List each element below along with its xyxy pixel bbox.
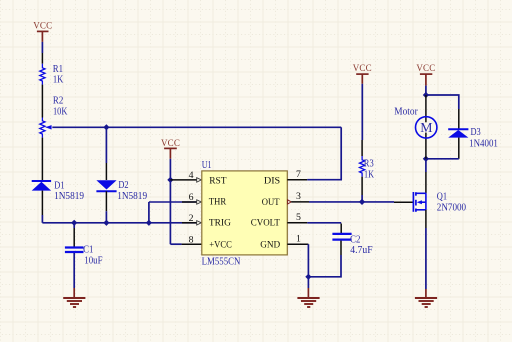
wire C2 bottom to GND net	[308, 255, 341, 277]
svg-text:C1: C1	[83, 244, 93, 255]
node junction motor top	[423, 92, 429, 98]
node junction D2 bottom	[103, 220, 109, 226]
wire DIS horizontal	[307, 179, 342, 181]
power port VCC (top-left)	[33, 21, 52, 42]
svg-text:RST: RST	[209, 175, 226, 186]
wire OUT to gate	[309, 201, 394, 203]
pin R1.2 / pin R2.1	[41, 85, 43, 118]
pin arrow RST	[197, 178, 202, 182]
svg-text:6: 6	[189, 192, 194, 203]
potentiometer R2	[40, 96, 68, 138]
node junction THR branch	[146, 220, 152, 226]
svg-text:CVOLT: CVOLT	[251, 218, 280, 229]
wire R2 wiper to DIS column	[52, 126, 341, 128]
svg-text:OUT: OUT	[262, 197, 280, 208]
wire source to ground	[425, 228, 427, 289]
pin D3.1	[458, 109, 460, 129]
pin D1.2	[41, 191, 43, 215]
node junction wiper/D2	[103, 124, 109, 130]
wire VCC to R3	[361, 84, 363, 140]
node junction C1 top	[71, 220, 77, 226]
diode D1	[32, 181, 84, 202]
ground (center)	[297, 288, 319, 307]
pin THR black segment	[182, 201, 197, 203]
power port VCC (555 supply)	[161, 138, 180, 159]
capacitor C1	[65, 244, 103, 266]
pin D3.2	[458, 138, 460, 159]
IC U1 LM555CN (555 timer) body	[202, 160, 288, 267]
pin Q1 source	[425, 210, 427, 228]
wire motor node to D3 top	[426, 95, 459, 109]
wire VCC to R1	[41, 42, 43, 53]
node junction GND net	[305, 274, 311, 280]
pin arrow OUT	[288, 200, 292, 204]
resistor R3	[360, 156, 375, 180]
svg-text:D3: D3	[471, 127, 481, 138]
svg-text:1N5819: 1N5819	[54, 191, 84, 202]
svg-text:M: M	[420, 120, 432, 135]
pin D2.2	[105, 191, 107, 211]
svg-text:1: 1	[296, 234, 301, 245]
svg-text:7: 7	[296, 169, 301, 180]
wire D3 bottom to drain node	[426, 158, 459, 160]
svg-text:VCC: VCC	[353, 63, 372, 73]
pin R1.1	[41, 53, 43, 64]
svg-text:Motor: Motor	[394, 106, 418, 117]
wire D2 vertical from wiper net	[105, 127, 107, 163]
pin C2.1	[340, 224, 342, 234]
svg-text:C2: C2	[350, 234, 360, 245]
svg-text:1N5819: 1N5819	[117, 191, 147, 202]
svg-text:4.7uF: 4.7uF	[350, 245, 372, 256]
wire CVOLT to C2	[307, 222, 341, 224]
wire GND down	[307, 244, 309, 288]
svg-text:1K: 1K	[364, 169, 374, 180]
ground (left)	[63, 288, 85, 307]
transistor Q1 2N7000	[394, 172, 466, 214]
wire drain node down	[425, 159, 427, 172]
svg-text:VCC: VCC	[416, 63, 435, 73]
motor "Motor"	[394, 95, 437, 159]
svg-text:DIS: DIS	[264, 175, 280, 186]
svg-text:2: 2	[189, 213, 194, 224]
svg-text:D2: D2	[118, 180, 128, 191]
diode D3	[448, 127, 498, 150]
pin TRIG black segment	[182, 222, 197, 224]
svg-text:3: 3	[296, 191, 301, 202]
svg-text:1N4001: 1N4001	[469, 139, 498, 150]
svg-text:+VCC: +VCC	[209, 239, 232, 250]
svg-text:R1: R1	[53, 64, 63, 75]
pin D2.1	[105, 163, 107, 180]
svg-text:TRIG: TRIG	[209, 218, 231, 229]
svg-text:5: 5	[296, 212, 301, 223]
svg-text:R3: R3	[364, 159, 374, 170]
svg-text:10uF: 10uF	[84, 255, 102, 266]
pin arrow TRIG	[197, 221, 202, 225]
svg-text:1K: 1K	[53, 75, 64, 86]
pin U1.1 GND	[287, 243, 308, 245]
wire VCC to motor node	[425, 86, 427, 95]
svg-text:VCC: VCC	[33, 21, 52, 31]
pin U1.7 DIS	[287, 179, 307, 181]
wire THR horizontal	[149, 201, 197, 203]
svg-text:4: 4	[189, 170, 194, 181]
power port VCC (motor)	[416, 63, 435, 86]
node junction RST	[167, 177, 173, 183]
svg-text:LM555CN: LM555CN	[202, 256, 241, 267]
wire VCC rail to RST/+VCC	[169, 159, 171, 244]
pin U1.4 RST	[170, 179, 197, 181]
power port VCC (R3)	[353, 63, 372, 84]
svg-text:Q1: Q1	[437, 191, 447, 202]
wire THR jog vertical	[148, 202, 150, 223]
resistor R1	[40, 64, 64, 86]
pin R2.2	[41, 138, 43, 181]
wire C1 to ground	[73, 253, 75, 288]
pin arrow THR	[197, 200, 202, 204]
pin U1.8 +VCC	[170, 243, 181, 245]
capacitor C2	[332, 234, 372, 256]
pin R3.2	[361, 177, 363, 195]
ground (right)	[415, 289, 437, 307]
wire R3 to OUT net	[361, 195, 363, 202]
pin C1.1	[73, 223, 75, 228]
node junction R3/OUT	[359, 199, 365, 205]
svg-text:8: 8	[189, 234, 194, 245]
svg-text:VCC: VCC	[161, 138, 180, 148]
svg-text:GND: GND	[260, 239, 280, 250]
pin C2.2	[340, 241, 342, 255]
wire bottom net (D1/C1/D2/TRIG)	[42, 222, 197, 224]
svg-text:THR: THR	[209, 197, 227, 208]
svg-text:R2: R2	[53, 96, 63, 107]
wire DIS vertical	[340, 127, 342, 179]
diode D2	[96, 180, 147, 202]
svg-text:10K: 10K	[53, 107, 68, 118]
pin R3.1	[361, 140, 363, 156]
pin U1.3 OUT	[291, 201, 309, 203]
svg-text:2N7000: 2N7000	[437, 203, 466, 214]
svg-text:U1: U1	[202, 160, 212, 171]
node junction motor bottom / drain	[423, 156, 429, 162]
pin U1.5 CVOLT	[287, 222, 307, 224]
